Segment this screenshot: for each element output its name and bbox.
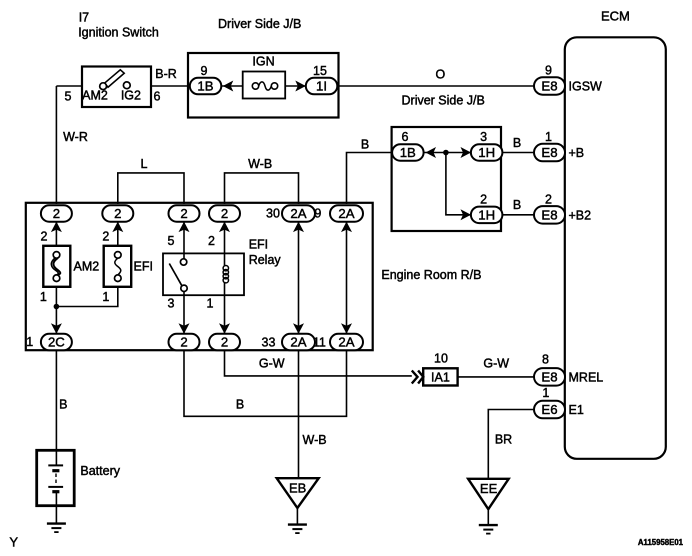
svg-text:1: 1 <box>545 130 552 144</box>
svg-text:1: 1 <box>207 297 214 311</box>
svg-text:9: 9 <box>201 64 208 78</box>
svg-text:30: 30 <box>266 207 280 221</box>
svg-text:W-B: W-B <box>248 157 272 171</box>
svg-text:3: 3 <box>168 297 175 311</box>
svg-text:2A: 2A <box>290 335 306 350</box>
svg-text:IG2: IG2 <box>121 89 141 103</box>
svg-text:B-R: B-R <box>155 67 177 81</box>
svg-text:A115958E01: A115958E01 <box>638 538 684 547</box>
svg-text:W-R: W-R <box>63 130 88 144</box>
svg-text:Battery: Battery <box>80 464 120 478</box>
svg-text:Relay: Relay <box>249 253 282 267</box>
svg-text:6: 6 <box>154 89 161 103</box>
svg-text:EFI: EFI <box>249 238 268 252</box>
svg-text:2: 2 <box>102 230 109 244</box>
svg-text:O: O <box>436 67 446 81</box>
svg-text:EFI: EFI <box>134 259 153 273</box>
svg-text:E6: E6 <box>541 402 557 417</box>
svg-text:W-B: W-B <box>303 433 327 447</box>
svg-text:IA1: IA1 <box>431 371 450 385</box>
svg-text:G-W: G-W <box>259 357 285 371</box>
svg-text:EE: EE <box>480 481 498 496</box>
svg-text:B: B <box>513 198 521 212</box>
svg-text:1B: 1B <box>400 145 416 160</box>
svg-text:L: L <box>141 157 148 171</box>
svg-text:15: 15 <box>313 64 327 78</box>
svg-text:B: B <box>59 398 67 412</box>
svg-text:1I: 1I <box>316 79 327 94</box>
svg-text:Driver Side J/B: Driver Side J/B <box>218 17 301 31</box>
svg-text:Ignition Switch: Ignition Switch <box>78 26 159 40</box>
svg-text:E8: E8 <box>541 145 557 160</box>
svg-text:1: 1 <box>102 290 109 304</box>
svg-text:1H: 1H <box>478 207 495 222</box>
svg-text:10: 10 <box>434 352 448 366</box>
svg-text:2A: 2A <box>290 206 306 221</box>
svg-text:9: 9 <box>545 64 552 78</box>
svg-text:2: 2 <box>114 206 121 221</box>
svg-text:33: 33 <box>262 335 276 349</box>
svg-text:1: 1 <box>542 386 549 400</box>
svg-text:2: 2 <box>180 206 187 221</box>
svg-text:2: 2 <box>180 335 187 350</box>
svg-text:IGN: IGN <box>252 55 274 69</box>
svg-text:E8: E8 <box>541 370 557 385</box>
svg-text:5: 5 <box>65 89 72 103</box>
svg-text:5: 5 <box>168 234 175 248</box>
svg-text:1: 1 <box>26 335 33 349</box>
svg-text:2: 2 <box>221 335 228 350</box>
svg-text:Engine Room R/B: Engine Room R/B <box>381 268 481 282</box>
svg-text:8: 8 <box>542 352 549 366</box>
svg-text:2: 2 <box>41 230 48 244</box>
svg-text:1H: 1H <box>478 145 495 160</box>
svg-text:2A: 2A <box>338 206 354 221</box>
svg-text:AM2: AM2 <box>82 89 108 103</box>
svg-text:1B: 1B <box>197 79 213 94</box>
svg-text:11: 11 <box>313 335 326 349</box>
svg-text:B: B <box>236 398 244 412</box>
svg-text:AM2: AM2 <box>74 259 100 273</box>
svg-text:2C: 2C <box>48 335 65 350</box>
svg-text:2: 2 <box>480 193 487 207</box>
svg-text:EB: EB <box>289 480 306 495</box>
svg-text:2: 2 <box>221 206 228 221</box>
svg-text:B: B <box>513 136 521 150</box>
svg-text:E1: E1 <box>569 403 584 417</box>
svg-text:BR: BR <box>495 433 512 447</box>
svg-text:6: 6 <box>402 130 409 144</box>
svg-text:2A: 2A <box>338 335 354 350</box>
svg-text:E8: E8 <box>541 208 557 223</box>
svg-text:9: 9 <box>314 207 321 221</box>
svg-text:B: B <box>361 137 369 151</box>
svg-text:ECM: ECM <box>601 9 630 24</box>
svg-text:+B2: +B2 <box>569 208 592 222</box>
svg-text:2: 2 <box>53 206 60 221</box>
svg-text:2: 2 <box>208 234 215 248</box>
svg-text:Y: Y <box>9 535 18 550</box>
svg-text:1: 1 <box>40 290 47 304</box>
svg-text:MREL: MREL <box>569 370 604 384</box>
svg-text:+B: +B <box>569 146 585 160</box>
svg-text:G-W: G-W <box>483 357 509 371</box>
svg-text:IGSW: IGSW <box>569 80 603 94</box>
svg-text:3: 3 <box>480 130 487 144</box>
svg-text:2: 2 <box>545 193 552 207</box>
svg-text:Driver Side J/B: Driver Side J/B <box>402 93 485 107</box>
svg-text:I7: I7 <box>79 11 89 25</box>
svg-text:E8: E8 <box>541 79 557 94</box>
